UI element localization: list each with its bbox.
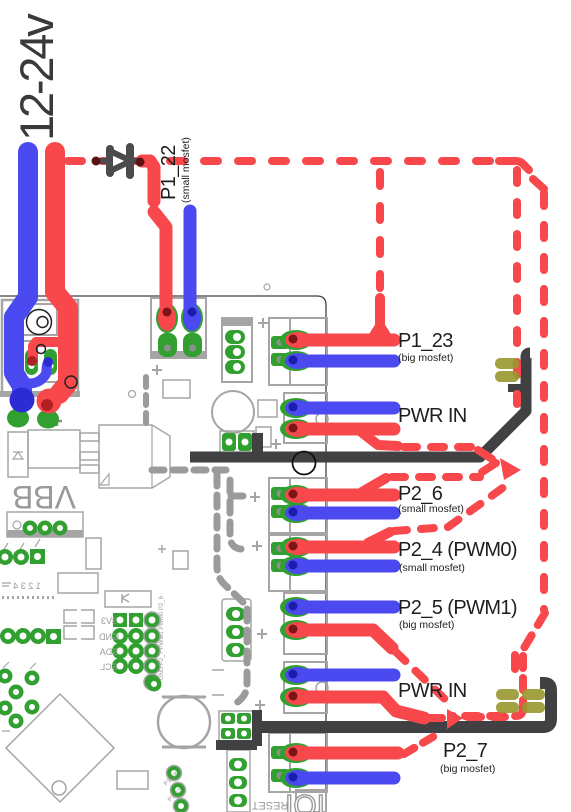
ICSP header pads xyxy=(0,669,13,684)
wire P2_4 dashed branch xyxy=(394,482,511,531)
svg-text:1 2 3 4: 1 2 3 4 xyxy=(13,581,41,591)
resistor R1 footprint xyxy=(163,380,190,398)
connector X2 P1_23 outline xyxy=(269,318,327,385)
gray wire A down to mid connector and J2 xyxy=(217,474,246,605)
svg-text:P1_22: P1_22 xyxy=(158,145,180,200)
3pin connector mid outline xyxy=(222,599,251,661)
wire PWR IN dashed branch xyxy=(404,443,474,451)
3pin connector bottom outline xyxy=(227,750,250,812)
header JP2 pads xyxy=(0,628,16,644)
3-pin header SV3 pads xyxy=(229,758,247,771)
resistor R2 footprint xyxy=(86,538,101,569)
3-pin header SV1 pads xyxy=(225,330,245,344)
wire P2_6 elbow xyxy=(362,478,386,492)
svg-text:(big mosfet): (big mosfet) xyxy=(398,352,453,364)
servo jumper pads lower xyxy=(496,689,519,700)
wire +12V branch to P1_23 xyxy=(376,172,384,300)
plus marks xyxy=(250,492,260,502)
pad terminal negative xyxy=(10,388,35,413)
node junction left of D1 xyxy=(92,157,101,166)
gray wire from TO220 xyxy=(152,467,226,474)
wire +12V twin verticals at lower jumper xyxy=(511,655,519,669)
svg-text:12-24v: 12-24v xyxy=(10,13,63,141)
svg-text:IOI: IOI xyxy=(285,788,325,812)
gray wire B with branch xyxy=(230,480,246,549)
wire PWR IN 2 elbow xyxy=(383,697,424,718)
wire +12V right vertical run xyxy=(540,193,548,610)
wire P2_5 dashed branch xyxy=(396,652,452,706)
svg-text:GND P2_7 PWM1 PWM0 P2_6: GND P2_7 PWM1 PWM0 P2_6 xyxy=(159,595,165,680)
TO-220 Q1 outline xyxy=(99,425,170,488)
wire P1_23 riser junction xyxy=(375,298,385,330)
svg-text:P2_4 (PWM0): P2_4 (PWM0) xyxy=(398,539,517,561)
terminal screw rings xyxy=(27,310,78,389)
right edge connector pin pads (green rect + dot), and ellipses under ovals xyxy=(271,336,289,782)
capacitor C4/C5 brackets xyxy=(64,610,77,639)
svg-text:RESET: RESET xyxy=(251,799,288,811)
connector X3 PWR IN outline xyxy=(284,393,327,443)
connector SV? 3-pin top outline xyxy=(222,318,252,382)
diode D1 leads xyxy=(98,158,141,164)
gray dashed short (TO220 area) xyxy=(143,377,149,424)
svg-text:P1_23: P1_23 xyxy=(398,330,453,352)
connector X6 P2_5 outline xyxy=(284,593,327,654)
wire +12V jog to lower jumper xyxy=(521,613,545,653)
pin hole dots xyxy=(12,308,298,782)
svg-text:(small mosfet): (small mosfet) xyxy=(399,562,465,574)
diode D1 cathode bar xyxy=(126,147,134,175)
power terminal X1 outline xyxy=(2,300,78,395)
svg-text:PWR IN: PWR IN xyxy=(398,405,467,427)
board outline xyxy=(0,296,326,812)
silkscreen ruler dots xyxy=(2,596,54,599)
jumper J1 outline xyxy=(220,431,254,454)
small rects near C1 xyxy=(258,400,277,417)
svg-text:3V3: 3V3 xyxy=(101,616,117,626)
power terminal X1 middle pads xyxy=(25,349,38,375)
svg-text:(small mosfet): (small mosfet) xyxy=(180,137,192,203)
small rects top area of bottom-left xyxy=(173,551,188,569)
svg-text:P2_7: P2_7 xyxy=(443,740,488,762)
connector X4 P2_6 outline xyxy=(269,478,327,533)
jumper J1 pads xyxy=(222,433,236,451)
wire PWR IN elbow xyxy=(360,431,398,446)
svg-text:(big mosfet): (big mosfet) xyxy=(440,763,495,775)
I2C header pad grid xyxy=(113,613,127,627)
diode D1 triangle xyxy=(110,151,131,171)
connector X5 P2_4 outline xyxy=(269,535,327,591)
svg-text:(big mosfet): (big mosfet) xyxy=(399,619,454,631)
wire P1_22 blue riser xyxy=(184,211,197,310)
arrow to servo jumper xyxy=(500,458,521,480)
pad terminal positive xyxy=(37,389,62,414)
connector P1_22 outline xyxy=(151,298,206,358)
IC U2 diamond footprint xyxy=(6,694,114,802)
diode K1 footprint xyxy=(105,591,151,607)
wire P2_7 dashed branch xyxy=(404,735,436,754)
electrolytic cap C1 outline xyxy=(212,391,254,433)
wire terminal red jumper xyxy=(33,342,64,355)
wire P2_5 elbow xyxy=(373,630,392,648)
wire +12V branch to servo jumper top xyxy=(499,161,529,170)
wires connector leads xyxy=(300,334,394,347)
svg-text:VBB: VBB xyxy=(12,479,76,515)
svg-text:PWR IN: PWR IN xyxy=(398,680,467,702)
pad P2_4 via xyxy=(147,677,162,692)
node junction right of D1 xyxy=(136,158,145,167)
wire GND lower (jumper J2 to servo jumper) xyxy=(252,710,262,746)
VBB connector bar xyxy=(7,512,83,537)
VBB header pads xyxy=(23,521,38,536)
jumper J2 outline xyxy=(219,711,255,741)
jumper J2 pads xyxy=(221,713,235,724)
svg-text:P2_5 (PWM1): P2_5 (PWM1) xyxy=(398,597,517,619)
connector X7 PWR IN 2 outline xyxy=(284,662,327,713)
connector pin pads (colored) xyxy=(158,305,311,786)
3-pin header SV2 pads xyxy=(226,607,245,621)
wire +12V dashed main xyxy=(68,157,494,165)
diode D1 anode bar xyxy=(106,149,114,173)
arrow to lower servo jumper xyxy=(447,709,463,729)
servo jumper pads upper xyxy=(495,358,519,369)
wire 12-24v negative (blue) xyxy=(14,152,28,396)
svg-text:GND: GND xyxy=(99,632,120,642)
plus / minus marks at terminal xyxy=(52,416,62,426)
electrolytic capacitor C2 outline xyxy=(158,696,210,748)
diode D2 footprint xyxy=(8,432,28,477)
wire P2_4 elbow xyxy=(368,532,390,543)
header JP1 pads xyxy=(0,549,13,565)
wire 12-24v positive (red) xyxy=(55,152,68,394)
capacitor C3 footprint xyxy=(28,430,80,468)
header P1_18/P1_19 pads xyxy=(167,766,182,781)
connector X9 bottom outline xyxy=(296,790,326,812)
resistor R3 footprint xyxy=(58,573,98,593)
wire +12V fork diagonal xyxy=(533,179,544,189)
power terminal X1 bottom pads xyxy=(7,409,29,428)
mounting hole ring xyxy=(293,452,316,475)
svg-text:SDA: SDA xyxy=(100,647,119,657)
connector X8 P2_7 outline xyxy=(269,733,327,792)
wire P1_22 red riser xyxy=(142,161,154,201)
wire +12V under lower jumper xyxy=(452,708,523,716)
P1_22 pads xyxy=(158,333,177,357)
wire terminal blue jumper xyxy=(14,365,47,383)
wire PWR IN 2 dashed branch xyxy=(430,714,443,722)
svg-text:P2_6: P2_6 xyxy=(398,483,443,505)
svg-text:SCL: SCL xyxy=(100,662,118,672)
wire P2_6 dashed branch xyxy=(392,473,480,481)
svg-text:(small mosfet): (small mosfet) xyxy=(398,503,464,515)
wire GND upper (jumper J1 to servo jumper) xyxy=(252,433,263,455)
